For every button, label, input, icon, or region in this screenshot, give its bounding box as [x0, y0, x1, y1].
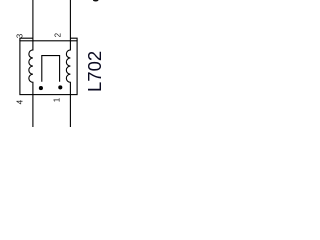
- svg-text:3: 3: [16, 33, 25, 38]
- pin 2 stub (top-right): [70, 38, 77, 41]
- svg-text:4: 4: [16, 99, 25, 104]
- pin 3 stub (top-left): [20, 38, 33, 41]
- core / shield (pi shape): [42, 56, 60, 82]
- svg-text:L702: L702: [84, 51, 105, 92]
- svg-text:1: 1: [52, 97, 61, 102]
- cropped mark at top edge: [93, 0, 98, 2]
- wire pin2 + secondary winding right + wire pin1: [66, 0, 70, 127]
- background: [0, 0, 106, 127]
- polarity dot right: [58, 85, 62, 89]
- svg-text:2: 2: [54, 32, 63, 37]
- wire pin3 + primary winding left + wire pin4: [29, 0, 33, 127]
- transformer L702 body box: [20, 41, 77, 95]
- polarity dot left: [39, 86, 43, 90]
